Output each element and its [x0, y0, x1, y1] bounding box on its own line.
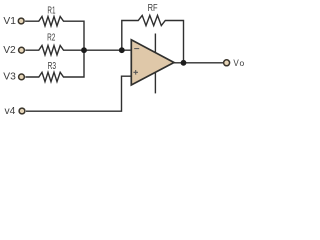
svg-text:R2: R2: [47, 33, 56, 44]
wire op-amp output to Vo: [174, 62, 223, 64]
op-amp noninverting input symbol: [133, 70, 138, 75]
terminal v4: [19, 108, 25, 114]
op-amp positive supply pin: [154, 34, 156, 53]
svg-text:R1: R1: [47, 6, 55, 17]
resistor RF feedback loop: [122, 15, 184, 62]
svg-text:V: V: [233, 58, 239, 69]
svg-text:v4: v4: [5, 106, 16, 117]
svg-text:RF: RF: [148, 3, 158, 14]
node: junction bus/RF at inverting input: [119, 47, 125, 53]
node: output junction with RF: [181, 60, 187, 66]
op-amp inverting input symbol: [134, 48, 139, 50]
op-amp negative supply pin: [154, 73, 156, 94]
op-amp U1: [131, 40, 174, 85]
terminal V3: [19, 74, 25, 80]
svg-text:V3: V3: [3, 71, 16, 82]
svg-text:V1: V1: [3, 16, 16, 27]
resistor R2: [25, 46, 131, 55]
wire v4 to noninverting input: [26, 76, 131, 111]
terminal Vo: [224, 60, 230, 66]
resistor R3: [25, 51, 84, 82]
resistor R1: [25, 17, 84, 51]
svg-text:V2: V2: [3, 45, 16, 56]
terminal V1: [18, 18, 24, 24]
svg-text:R3: R3: [48, 61, 57, 72]
node: junction R1/R2/R3 bus: [81, 47, 87, 53]
svg-text:o: o: [240, 58, 245, 68]
terminal V2: [19, 47, 25, 53]
